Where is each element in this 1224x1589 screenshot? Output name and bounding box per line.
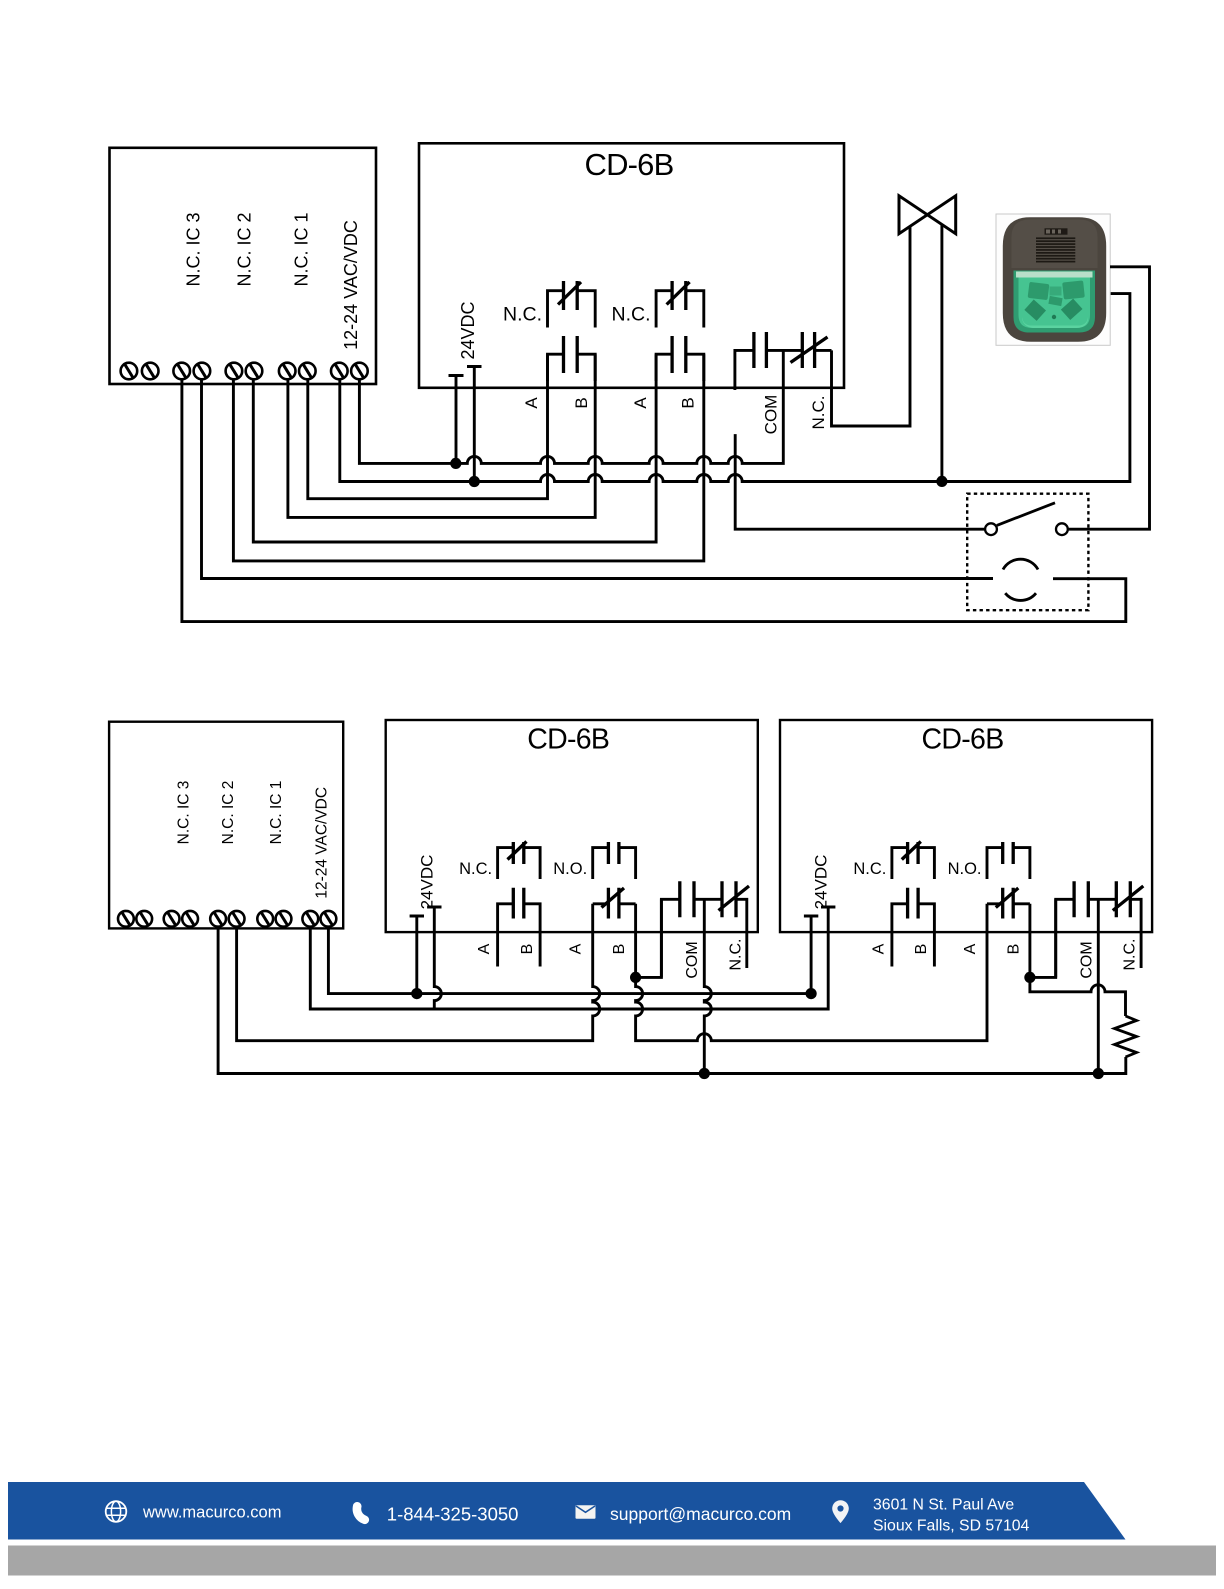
wire 24VDC+ stub box1 (hops bus) xyxy=(427,907,441,1009)
svg-text:CD-6B: CD-6B xyxy=(921,724,1003,756)
svg-text:24VDC: 24VDC xyxy=(458,301,478,359)
svg-text:12-24 VAC/VDC: 12-24 VAC/VDC xyxy=(341,220,361,350)
wire valve to bus xyxy=(940,225,943,482)
junction dot COM box1 xyxy=(699,1068,710,1079)
relay contact IC N.C. pair (bottom CD-6B #2) xyxy=(892,842,935,967)
footer phone icon xyxy=(357,1506,365,1520)
svg-text:B: B xyxy=(913,944,930,955)
bottom bus 1 (terminal to 24VDC-) xyxy=(328,927,811,994)
svg-text:www.macurco.com: www.macurco.com xyxy=(142,1503,281,1521)
wire COM box1 to common line xyxy=(704,899,711,1073)
wire contact B box2 to COM contact box2 xyxy=(1030,899,1056,977)
label N.C. IC 2 (bottom box) xyxy=(220,781,237,845)
wire terminal-2 to motor left side xyxy=(202,380,994,579)
label A (IC2, top) xyxy=(631,397,650,409)
label B IC1 (bottom CD-6B #2) xyxy=(913,944,930,955)
wire contact B box1 to COM contact box1 xyxy=(636,899,662,977)
interlock dashed box xyxy=(967,494,1088,611)
svg-text:N.C.: N.C. xyxy=(1122,939,1139,971)
svg-text:B: B xyxy=(519,944,536,955)
wire IC2 terminal-b to contact A box1 xyxy=(237,904,600,1041)
svg-text:A: A xyxy=(522,397,541,409)
label CD-6B (top) xyxy=(584,147,673,182)
junction dot bus1 box1 xyxy=(411,988,422,999)
relay contact IC N.O. pair (bottom CD-6B #2) xyxy=(987,842,1030,977)
svg-text:N.O.: N.O. xyxy=(553,860,587,878)
junction dot 24VDC+ on bus xyxy=(469,476,480,487)
svg-text:COM: COM xyxy=(684,941,701,978)
svg-text:N.C.: N.C. xyxy=(459,860,492,878)
svg-text:N.C. IC 3: N.C. IC 3 xyxy=(176,781,193,845)
label N.C. IC 3 (bottom box) xyxy=(176,781,193,845)
footer blue banner xyxy=(8,1482,1126,1540)
label B IC2 (bottom CD-6B #2) xyxy=(1005,944,1022,955)
label CD-6B (bottom CD-6B #2) xyxy=(921,724,1003,756)
footer email text xyxy=(610,1504,791,1524)
wire 24VDC positive stub (top CD-6B) xyxy=(467,367,482,482)
footer globe icon xyxy=(106,1501,127,1522)
svg-text:N.C. IC 3: N.C. IC 3 xyxy=(184,212,204,286)
switch contact circles xyxy=(985,523,1068,535)
svg-text:N.C.: N.C. xyxy=(853,860,886,878)
junction dot 24VDC- on bus xyxy=(450,458,461,469)
svg-text:1-844-325-3050: 1-844-325-3050 xyxy=(387,1503,519,1524)
label B (IC2, top) xyxy=(679,397,698,408)
wire terminal-1 to motor right side xyxy=(182,380,1126,622)
wire terminal-3 to contact B of IC2 xyxy=(233,354,703,561)
label N.C. (bottom CD-6B #2) xyxy=(853,860,886,878)
svg-text:N.C. IC 2: N.C. IC 2 xyxy=(235,212,255,286)
EOL resistor xyxy=(1115,1016,1137,1057)
svg-text:COM: COM xyxy=(1078,941,1095,978)
terminal screws (top box) xyxy=(121,363,368,380)
wire bus 12-24VAC supply (terminal-7) to 24VDC+ / valve / horn xyxy=(340,294,1130,482)
label N.O. (bottom CD-6B #2) xyxy=(948,860,982,878)
relay contact IC1 N.C. + A-B contact (top CD-6B, slashed upper) xyxy=(548,281,596,381)
junction dot bus1 box2 xyxy=(806,988,817,999)
relay contact COM-NC pair (top CD-6B) xyxy=(735,332,832,390)
svg-text:N.C. IC 1: N.C. IC 1 xyxy=(291,212,311,286)
svg-text:N.C.: N.C. xyxy=(727,939,744,971)
label COM (bottom CD-6B #2) xyxy=(1078,941,1095,978)
wire terminal-6 to contact A of IC1 xyxy=(308,354,548,499)
wire 24VDC- stub (bottom CD-6B #1) xyxy=(410,916,424,994)
svg-text:A: A xyxy=(962,943,979,954)
junction dot COM box2 xyxy=(1093,1068,1104,1079)
footer phone text xyxy=(387,1503,519,1524)
relay contact IC N.C. pair (bottom CD-6B #1) xyxy=(498,842,540,967)
svg-text:N.C.: N.C. xyxy=(503,304,542,326)
wire 24VDC- stub (bottom CD-6B #2) xyxy=(804,916,818,994)
wire bus return (terminal-8) to COM xyxy=(359,350,783,463)
svg-text:support@macurco.com: support@macurco.com xyxy=(610,1504,791,1524)
label B IC1 (bottom CD-6B #1) xyxy=(519,944,536,955)
label N.C. IC 1 (top box) xyxy=(291,212,311,286)
footer email icon xyxy=(576,1505,596,1519)
svg-text:Sioux Falls, SD 57104: Sioux Falls, SD 57104 xyxy=(873,1517,1030,1534)
wire horn terminal 1 to switch xyxy=(1068,267,1150,529)
svg-text:A: A xyxy=(476,943,493,954)
junction dot contact B box1 xyxy=(630,972,641,983)
CD-6B unit box (bottom CD-6B #2) xyxy=(780,720,1152,932)
relay contact COM-NC pair (bottom CD-6B #2) xyxy=(1056,881,1144,977)
label N.C. output (bottom CD-6B #2) xyxy=(1122,939,1139,971)
svg-text:B: B xyxy=(611,944,628,955)
relay contact COM-NC pair (bottom CD-6B #1) xyxy=(661,881,749,977)
svg-text:B: B xyxy=(1005,944,1022,955)
wire terminal-5 to contact B of IC1 xyxy=(288,354,595,517)
wire N.C. contact to valve xyxy=(832,227,911,427)
footer address line 1 xyxy=(873,1497,1014,1514)
wire IC2 terminal-a to COM line xyxy=(218,927,1126,1074)
label 24VDC (bottom CD-6B #1) xyxy=(417,855,436,910)
footer gray bar xyxy=(8,1546,1216,1576)
svg-text:N.C. IC 1: N.C. IC 1 xyxy=(268,781,285,845)
valve (solenoid) symbol xyxy=(899,196,956,234)
label COM (top) xyxy=(761,395,780,435)
wire 24VDC negative stub (top CD-6B) xyxy=(449,376,464,464)
label CD-6B (bottom CD-6B #1) xyxy=(527,724,609,756)
label A (IC1, top) xyxy=(522,397,541,409)
relay contact IC2 N.C. + A-B contact (top CD-6B, slashed upper) xyxy=(656,281,704,381)
CD-6B unit box (top diagram) xyxy=(419,143,844,387)
wire COM box2 to common line xyxy=(1097,899,1100,1073)
svg-text:N.C. IC 2: N.C. IC 2 xyxy=(220,781,237,845)
label 24VDC (bottom CD-6B #2) xyxy=(812,855,831,910)
svg-text:B: B xyxy=(679,397,698,408)
svg-text:A: A xyxy=(631,397,650,409)
svg-text:A: A xyxy=(870,943,887,954)
label N.C. (bottom CD-6B #1) xyxy=(459,860,492,878)
svg-text:24VDC: 24VDC xyxy=(812,855,831,910)
svg-text:3601 N St. Paul Ave: 3601 N St. Paul Ave xyxy=(873,1497,1014,1514)
svg-text:N.C.: N.C. xyxy=(612,304,651,326)
label A IC2 (bottom CD-6B #1) xyxy=(568,943,585,954)
svg-text:N.C.: N.C. xyxy=(809,396,828,430)
wire contact B box1 to contact A box2 xyxy=(636,904,987,1041)
motor circle xyxy=(1003,559,1038,600)
label N.C. output (bottom CD-6B #1) xyxy=(727,939,744,971)
label B IC2 (bottom CD-6B #1) xyxy=(611,944,628,955)
control panel box (top diagram) xyxy=(110,148,377,384)
wire relay to switch pole xyxy=(735,434,985,529)
svg-text:N.O.: N.O. xyxy=(948,860,982,878)
label COM (bottom CD-6B #1) xyxy=(684,941,701,978)
svg-text:CD-6B: CD-6B xyxy=(584,147,673,182)
svg-text:CD-6B: CD-6B xyxy=(527,724,609,756)
svg-text:24VDC: 24VDC xyxy=(417,855,436,910)
wire contact B box2 to resistor xyxy=(1030,977,1126,1016)
junction dot contact B box2 xyxy=(1024,972,1035,983)
label A IC2 (bottom CD-6B #2) xyxy=(962,943,979,954)
label N.O. (bottom CD-6B #1) xyxy=(553,860,587,878)
label N.C. IC 2 (top box) xyxy=(235,212,255,286)
terminal screws (bottom box) xyxy=(118,911,336,927)
label A IC1 (bottom CD-6B #2) xyxy=(870,943,887,954)
label N.C. IC 3 (top box) xyxy=(184,212,204,286)
relay contact IC N.O. pair (bottom CD-6B #1) xyxy=(593,842,636,977)
horn/strobe device photo xyxy=(996,214,1110,345)
footer address line 2 xyxy=(873,1517,1030,1534)
label N.C. contact 1 (top CD-6B) xyxy=(503,304,542,326)
CD-6B unit box (bottom CD-6B #1) xyxy=(386,720,758,932)
junction dot valve on bus xyxy=(936,476,947,487)
label N.C. contact 2 (top CD-6B) xyxy=(612,304,651,326)
wire terminal-4 to contact A of IC2 xyxy=(253,354,656,542)
control panel box (bottom diagram) xyxy=(109,722,343,929)
bottom bus 2 (terminal to 24VDC+) xyxy=(310,907,835,1009)
label N.C. IC 1 (bottom box) xyxy=(268,781,285,845)
label N.C. output (top) xyxy=(809,396,828,430)
svg-text:B: B xyxy=(572,397,591,408)
svg-text:COM: COM xyxy=(761,395,780,435)
label 12-24 VAC/VDC (bottom box) xyxy=(314,787,331,899)
svg-text:A: A xyxy=(568,943,585,954)
label 24VDC (top CD-6B) xyxy=(458,301,478,359)
switch lever xyxy=(997,503,1055,526)
footer location pin icon xyxy=(832,1500,849,1523)
svg-text:12-24 VAC/VDC: 12-24 VAC/VDC xyxy=(314,787,331,899)
label B (IC1, top) xyxy=(572,397,591,408)
label A IC1 (bottom CD-6B #1) xyxy=(476,943,493,954)
label 12-24 VAC/VDC (top box) xyxy=(341,220,361,350)
footer website text xyxy=(142,1503,281,1521)
